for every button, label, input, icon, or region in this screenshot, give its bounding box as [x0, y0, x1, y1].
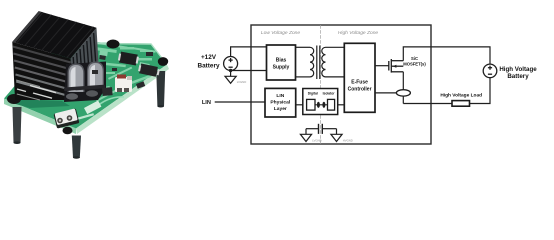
heatsink fin glare: [17, 86, 56, 99]
wire e-fuse current sense: [375, 92, 396, 94]
heatsink right ribbed face: [71, 28, 99, 94]
svg-text:Supply: Supply: [273, 65, 290, 71]
svg-text:Layer: Layer: [274, 106, 287, 112]
svg-text:High Voltage Zone: High Voltage Zone: [338, 30, 379, 36]
core lines: [316, 46, 318, 80]
isolator right cell: [328, 99, 335, 110]
transformer base blobs: [66, 93, 78, 99]
block: E-Fuse Controller: [344, 43, 375, 112]
wire drain to HV battery +: [403, 47, 490, 64]
svg-text:Physical: Physical: [270, 100, 290, 106]
HV battery source B2: [483, 64, 497, 78]
bottom cap: [63, 127, 73, 135]
ic chip 2: [138, 63, 161, 77]
rear board edge highlight: [93, 44, 167, 65]
svg-text:LIN: LIN: [276, 93, 284, 99]
wire source down: [402, 72, 404, 104]
svg-text:SiC: SiC: [411, 56, 418, 61]
svg-text:LVGND: LVGND: [237, 80, 246, 84]
block: digital isolator: [303, 89, 338, 115]
transformer T1: [296, 46, 345, 80]
wire e-fuse gate drive: [375, 65, 389, 67]
isolation barrier dashed line: [320, 26, 322, 144]
ground LVGND left: [300, 129, 311, 142]
svg-text:Digital: Digital: [308, 92, 318, 96]
isolator coupling wire: [315, 104, 328, 106]
svg-text:High Voltage Load: High Voltage Load: [440, 93, 482, 99]
wire load to HV battery -: [470, 78, 491, 104]
junction battery-: [229, 69, 232, 72]
right leg: [156, 71, 165, 107]
wire battery- to bias supply: [231, 70, 267, 72]
ground LVGND below battery: [225, 71, 236, 84]
secondary winding: [322, 47, 326, 77]
Y-capacitor between grounds: [306, 124, 337, 134]
svg-text:High Voltage: High Voltage: [499, 66, 537, 73]
white terminal block: [54, 108, 80, 128]
rear standoff cap: [107, 40, 120, 49]
transformer winding right: [87, 62, 104, 89]
svg-text:MOSFET(s): MOSFET(s): [403, 62, 426, 67]
pcb silkscreen texture: [95, 42, 156, 108]
rear-left standoff cap: [7, 94, 21, 104]
heatsink top face: [12, 11, 96, 58]
white relay component: [115, 75, 132, 93]
svg-text:LVGND: LVGND: [312, 139, 321, 143]
svg-text:+12V: +12V: [201, 54, 217, 61]
primary winding: [310, 47, 314, 77]
resistor: high voltage load: [452, 101, 470, 107]
secondary stub bottom: [326, 76, 345, 78]
block: Bias Supply: [267, 45, 296, 80]
pcb board top surface: [4, 43, 167, 129]
small components scatter: [92, 52, 153, 96]
wire battery+ to bias supply: [231, 47, 267, 57]
pcb board front edge strip: [4, 99, 76, 135]
isolator coupling caps: [317, 102, 320, 108]
svg-text:Battery: Battery: [197, 63, 219, 70]
wire LIN phy to digital isolator: [296, 104, 303, 106]
wire isolator to e-fuse controller: [338, 104, 345, 106]
block: LIN Physical Layer: [265, 88, 296, 117]
isolator left cell: [307, 99, 315, 110]
ground HVGND right: [331, 129, 342, 142]
wire source to load: [403, 103, 452, 105]
svg-text:HVGND: HVGND: [343, 139, 353, 143]
svg-text:Bias: Bias: [276, 58, 287, 64]
svg-text:Low Voltage Zone: Low Voltage Zone: [261, 30, 301, 36]
ic chip 1: [118, 51, 140, 65]
bottom leg: [72, 136, 81, 159]
transformer body: [64, 62, 106, 103]
primary stub bottom: [296, 76, 311, 78]
outer system box: [251, 25, 431, 144]
transformer winding left: [68, 64, 85, 93]
primary stub top: [296, 46, 311, 48]
wire LIN to LIN physical layer: [215, 101, 265, 103]
front-left leg: [13, 107, 22, 143]
secondary stub top: [326, 46, 345, 48]
svg-text:Isolator: Isolator: [323, 92, 336, 96]
current sense element: [396, 90, 410, 96]
silkscreen text near front edge: [78, 113, 94, 120]
svg-text:E-Fuse: E-Fuse: [351, 80, 368, 86]
heatsink shadow on board: [12, 99, 70, 108]
transistor Q1 SiC MOSFET: [389, 59, 404, 73]
heatsink fins front face: [12, 42, 75, 100]
+12V battery source B1: [224, 57, 238, 71]
svg-text:LIN: LIN: [202, 100, 211, 106]
right cap: [158, 57, 168, 66]
pcb board right edge strip: [76, 65, 169, 135]
svg-text:Battery: Battery: [507, 73, 529, 80]
svg-text:Controller: Controller: [348, 86, 372, 92]
